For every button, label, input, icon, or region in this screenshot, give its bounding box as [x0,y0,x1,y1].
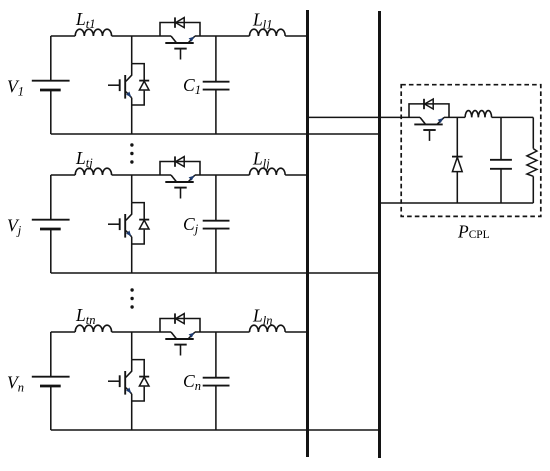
transistor Sn2 gate bar [174,344,186,346]
transistor S11 body bar [124,75,126,99]
transistor Sn2 collector lead [171,332,177,339]
resistor R-load [527,149,537,177]
battery Vj short plate [40,228,61,231]
transistor Sj2 body bar [165,181,193,183]
node module-1 switch junction [131,36,133,64]
wire CPL positive feed [308,116,421,118]
transistor Sn1 gate lead [108,380,120,382]
wire module-n top rail left [51,331,75,333]
inductor Ltn (L_tn) [75,325,111,332]
diode Dj2 (antiparallel, top switch) [174,156,176,166]
wire CPL negative return [380,202,534,204]
transistor S12 gate stub [180,50,182,60]
transistor Sn1 collector lead [126,360,132,378]
wire diode branch bottom switch module-n [132,360,145,377]
wire diode branch top switch module-j [160,162,200,176]
transistor Sn1 emitter arrow [126,388,131,394]
transistor Sn1 emitter lead [126,388,132,394]
transistor Sn2 emitter arrow [189,333,195,338]
inductor Lln (L_ln) [250,325,286,332]
wire module-j top rail mid [112,174,171,176]
transistor Sj2 emitter lead [188,175,195,182]
transistor Sj1 gate lead [108,223,120,225]
inductor Ltj (L_tj) [75,168,111,175]
wire module-n emitter to bottom rail [131,394,133,430]
wire battery V_n bottom [50,386,52,430]
wire module-1 top rail mid [112,35,171,37]
CPL boundary (dashed box) [401,85,541,217]
bus bar negative (right) [378,11,381,458]
transistor Sj1 body bar [124,214,126,238]
wire battery V_1 top [50,36,52,80]
transistor Sj1 emitter lead [126,231,132,237]
node module-n switch junction [131,332,133,360]
ellipsis dots (modules 1..j) [130,143,133,146]
transistor S-CPL gate stub [429,131,431,141]
transistor Sn2 body bar [165,338,193,340]
wire CPL resistor top lead [532,117,534,148]
transistor Sj2 emitter arrow [189,176,195,181]
transistor Sn1 body bar [124,371,126,395]
wire diode branch top switch module-n [160,319,200,333]
transistor S12 emitter lead [188,36,195,43]
wire CPL capacitor bottom [500,169,502,203]
wire CPL freewheel branch [456,117,458,156]
wire capacitor C_1 top [215,36,217,82]
wire diode branch bottom switch module-1 [132,64,145,81]
diode Dn2 (antiparallel, top switch) [174,313,176,323]
wire module-j emitter to bottom rail [131,237,133,273]
wire battery V_j bottom [50,229,52,273]
transistor Sn2 gate stub [180,346,182,356]
wire module-1 to bus [285,35,309,37]
capacitor Cj bottom plate [203,228,230,230]
transistor S12 gate bar [174,48,186,50]
wire module-n top rail mid [112,331,171,333]
wire module-1 bottom rail [51,133,381,135]
wire capacitor C_1 bottom [215,90,217,134]
transistor S12 body bar [165,42,193,44]
transistor S11 emitter arrow [126,92,131,98]
transistor S11 collector lead [126,64,132,82]
battery Vn short plate [40,385,61,388]
wire CPL switch to inductor [444,116,465,118]
battery V1 short plate [40,89,61,92]
wire module-1 top rail left [51,35,75,37]
wire CPL freewheel to bottom [456,172,458,203]
wire module-j to bus [285,174,309,176]
wire module-n bottom rail [51,429,381,431]
wire capacitor C_j bottom [215,229,217,273]
diode Dn1 (antiparallel, bottom switch) [139,376,149,378]
wire CPL inductor to corner [492,116,534,118]
inductor Llj (L_lj) [250,168,286,175]
transistor Sj2 collector lead [171,175,177,182]
wire diode branch bottom switch module-j [132,203,145,220]
transistor Sj1 emitter arrow [126,231,131,237]
inductor Ll1 (L_l1) [250,29,286,36]
transistor S12 collector lead [171,36,177,43]
transistor S-CPL collector lead [420,117,426,124]
transistor S11 gate lead [108,84,120,86]
inductor Lt1 (L_t1) [75,29,111,36]
transistor Sn1 gate bar [119,375,121,387]
bus bar positive (left) [306,10,309,457]
capacitor C-CPL top plate [490,159,512,161]
wire battery V_j top [50,175,52,219]
capacitor Cj top plate [203,220,230,222]
wire module-n top rail right [195,331,250,333]
transistor S11 gate bar [119,79,121,91]
node module-j switch junction [131,175,133,203]
wire capacitor C_n bottom [215,386,217,430]
transistor Sn2 emitter lead [188,332,195,339]
battery V1 long plate [32,80,70,82]
wire module-j top rail left [51,174,75,176]
diode D-CPL freewheel [452,156,463,158]
inductor L-CPL [465,111,492,118]
transistor S11 emitter lead [126,92,132,98]
transistor S-CPL emitter lead [437,117,444,124]
transistor S12 emitter arrow [189,37,195,42]
transistor Sj2 gate stub [180,189,182,199]
wire battery V_1 bottom [50,90,52,134]
wire CPL resistor bottom lead [532,176,534,203]
wire CPL capacitor top [500,117,502,159]
transistor Sj1 collector lead [126,203,132,221]
wire module-1 top rail right [195,35,250,37]
diode D-CPL antiparallel [423,99,425,109]
capacitor C1 top plate [203,81,230,83]
capacitor C-CPL bottom plate [490,168,512,170]
battery Vj long plate [32,219,70,221]
wire diode branch top switch module-1 [160,23,200,37]
transistor S-CPL body bar [414,123,442,125]
battery Vn long plate [32,376,70,378]
transistor S-CPL gate bar [423,129,435,131]
transistor Sj2 gate bar [174,187,186,189]
wire capacitor C_n top [215,332,217,378]
wire module-j top rail right [195,174,250,176]
wire module-1 emitter to bottom rail [131,98,133,134]
diode D11 (antiparallel, bottom switch) [139,80,149,82]
wire module-j bottom rail [51,272,381,274]
capacitor C1 bottom plate [203,89,230,91]
ellipsis dots (modules j..n) [130,288,133,291]
transistor Sj1 gate bar [119,218,121,230]
capacitor Cn top plate [203,377,230,379]
wire capacitor C_j top [215,175,217,221]
diode D12 (antiparallel, top switch) [174,17,176,27]
capacitor Cn bottom plate [203,385,230,387]
wire diode branch CPL switch [409,104,449,118]
wire module-n to bus [285,331,309,333]
wire battery V_n top [50,332,52,376]
diode Dj1 (antiparallel, bottom switch) [139,219,149,221]
transistor S-CPL emitter arrow [438,118,444,123]
